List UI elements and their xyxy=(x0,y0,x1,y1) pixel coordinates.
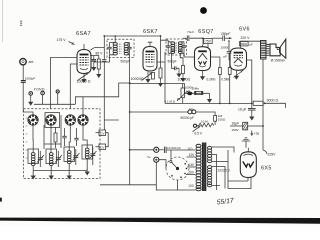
trimmer capacitor T4 xyxy=(90,147,97,165)
wafer switch S2 xyxy=(46,115,56,125)
svg-text:50000 pF: 50000 pF xyxy=(181,116,195,120)
wire HT bottom tap xyxy=(212,161,213,163)
svg-text:160: 160 xyxy=(188,171,194,175)
svg-text:Ø 150mm: Ø 150mm xyxy=(271,58,286,62)
tube 6SQ7 xyxy=(195,47,211,71)
svg-text:100Ω: 100Ω xyxy=(218,118,226,122)
diode plates 6X5 xyxy=(243,162,248,168)
capacitor AC 10000pF xyxy=(159,147,196,160)
svg-text:6SA7: 6SA7 xyxy=(76,31,91,37)
bottom page edge bar xyxy=(0,218,320,224)
wire AC bottom down to bus xyxy=(156,162,177,190)
svg-text:6V6: 6V6 xyxy=(239,26,250,32)
wire long vertical from B+ bus xyxy=(103,36,105,59)
resistor 3000 ohm filter xyxy=(251,101,286,108)
wire primary taps xyxy=(186,157,196,175)
secondary filament winding xyxy=(207,166,211,187)
oscillator coil L4 xyxy=(85,148,89,158)
capacitor twin circles xyxy=(188,110,215,116)
antenna terminal xyxy=(20,59,26,65)
capacitor grid 6SQ7 (HaF) xyxy=(183,35,204,44)
label 175V with arrow xyxy=(57,38,75,45)
capacitor inside box 2 xyxy=(74,138,78,140)
svg-text:pF: pF xyxy=(249,42,253,46)
svg-text:5000: 5000 xyxy=(240,42,247,46)
wire CV link vertical xyxy=(106,133,109,147)
wire IFT2 return vertical xyxy=(157,52,165,103)
trimmer capacitor T2 xyxy=(55,151,62,167)
AC input terminals xyxy=(147,147,159,162)
left edge mark xyxy=(0,198,2,202)
resistor 6SA7 anode-grid network xyxy=(90,56,99,60)
wire selector to bottom bus xyxy=(178,180,196,190)
svg-text:10000 Ω: 10000 Ω xyxy=(77,80,91,84)
capacitor near 6SA7 anode xyxy=(92,60,96,62)
capacitor inside box xyxy=(62,136,66,138)
core xyxy=(202,143,206,192)
shield can L3 xyxy=(64,147,75,162)
wire 6SQ7 plate up xyxy=(202,45,204,47)
resistor 6SQ7 diode load xyxy=(211,57,220,68)
svg-text:pF: pF xyxy=(224,55,228,59)
secondary HT winding xyxy=(207,146,211,162)
resistor 10M boxed xyxy=(195,91,203,94)
ground 6SQ7 cathode xyxy=(202,71,204,74)
trimmer capacitor T1 xyxy=(37,151,44,167)
wire AVC line xyxy=(130,83,185,85)
svg-text:6X5: 6X5 xyxy=(261,166,272,172)
svg-text:10000Ω: 10000Ω xyxy=(178,77,191,81)
svg-text:500pF: 500pF xyxy=(168,60,177,64)
dashed enclosure xyxy=(24,109,101,179)
ground in box L1 xyxy=(31,173,36,180)
voltage selector xyxy=(166,157,189,180)
svg-text:250pF: 250pF xyxy=(221,32,230,36)
trimmer capacitor T3 xyxy=(73,149,80,165)
capacitor 1000pF antenna xyxy=(21,81,26,83)
coil L3 xyxy=(67,151,71,164)
ground 6SK7 cathode xyxy=(147,71,149,76)
wire 6SA7 top right to bus vertical xyxy=(91,48,105,50)
ground above 6X5 xyxy=(242,138,250,148)
shield around S2 xyxy=(45,113,60,128)
capacitor filter 16uF first xyxy=(248,103,256,120)
svg-text:16 μF: 16 μF xyxy=(238,107,247,111)
resistor 6SK7 cathode xyxy=(152,73,155,80)
capacitor on vertical xyxy=(102,60,106,62)
svg-text:10 000 pF: 10 000 pF xyxy=(167,146,181,150)
IF transformer IFT2 xyxy=(161,39,187,82)
svg-text:10000Ω: 10000Ω xyxy=(131,77,144,81)
svg-text:6SQ7: 6SQ7 xyxy=(198,29,213,35)
page registration mark xyxy=(20,21,22,25)
svg-text:2x225 V: 2x225 V xyxy=(218,168,231,172)
coil L1 xyxy=(31,153,35,166)
svg-text:220 V: 220 V xyxy=(241,36,251,40)
AVC arrow 6SK7 xyxy=(142,73,153,81)
svg-text:6SK7: 6SK7 xyxy=(143,29,158,35)
capacitor blob xyxy=(184,84,186,94)
capacitor filter 16uF second (electrolytic) xyxy=(230,122,264,130)
tube 6V6 xyxy=(230,48,247,70)
svg-text:225V: 225V xyxy=(268,153,277,157)
svg-text:0.5Mn: 0.5Mn xyxy=(221,77,230,81)
svg-text:0.1 M Ω: 0.1 M Ω xyxy=(165,99,176,103)
FONO pickup terminal xyxy=(56,90,59,104)
wire 6X5 cathode top xyxy=(247,148,249,152)
volume potentiometer xyxy=(193,123,214,132)
svg-text:3000 Ω: 3000 Ω xyxy=(267,99,279,103)
svg-text:ant.: ant. xyxy=(29,60,35,64)
capacitor IFT2 secondary xyxy=(183,42,185,46)
tuning capacitor CV2 boxed xyxy=(96,144,106,150)
shield can L4 xyxy=(82,145,93,159)
wire IFT1 B+ xyxy=(114,36,116,43)
tube 6X5 xyxy=(240,152,256,178)
wire S1 from antenna xyxy=(23,109,33,115)
svg-text:125: 125 xyxy=(189,153,195,157)
core IFT1 xyxy=(120,44,122,55)
svg-text:+75: +75 xyxy=(254,132,260,136)
capacitor 250pF xyxy=(223,35,225,41)
diode plates 6SQ7 xyxy=(199,61,202,64)
svg-text:10000: 10000 xyxy=(221,46,230,50)
wire IFT1 secondary long vertical xyxy=(129,83,131,185)
wire HT lower tap xyxy=(213,161,228,163)
wire antenna down xyxy=(22,65,24,80)
shield can L1 xyxy=(28,149,39,164)
wire volume feed left xyxy=(130,111,188,113)
ground AVC cluster xyxy=(209,93,211,96)
svg-text:1000pF: 1000pF xyxy=(25,77,36,81)
tuning capacitor CV1 boxed xyxy=(96,130,106,136)
wire 6SQ7 diode to IFT2 xyxy=(184,53,195,57)
wire AC bottom to selector xyxy=(159,160,166,169)
resistor IFT2 bottom xyxy=(180,53,183,65)
marker +75 xyxy=(250,131,259,137)
svg-text:10 M: 10 M xyxy=(201,120,208,124)
svg-text:75V: 75V xyxy=(205,40,212,44)
wire IFT2 primary bottom xyxy=(171,53,173,66)
wafer switch S1 xyxy=(28,115,38,125)
B+ top bus wire xyxy=(104,35,160,37)
punch hole dot xyxy=(200,7,207,14)
svg-text:100: 100 xyxy=(188,184,194,188)
resistor 6V6 grid leak xyxy=(228,68,231,75)
wire bottom bus in box xyxy=(33,170,87,172)
AVC arrow 6SA7 xyxy=(78,73,90,81)
svg-text:16μF: 16μF xyxy=(232,121,240,125)
wire stub S4 up xyxy=(82,97,84,115)
svg-text:~: ~ xyxy=(147,155,151,162)
ground 6SA7 cathode xyxy=(83,74,85,77)
coil IFT2 primary xyxy=(171,42,175,54)
ground IFT2 b xyxy=(182,74,184,76)
wire bottom box to AC area xyxy=(100,184,156,186)
FONO jack right xyxy=(41,91,45,104)
wire HT to 6X5 plate left xyxy=(213,147,234,153)
wire HT top tap xyxy=(212,146,213,148)
capacitor IFT2 bottom xyxy=(175,66,176,70)
wire 6SA7 grid to band switch xyxy=(51,58,78,109)
output transformer xyxy=(261,41,270,60)
label 75V boxed xyxy=(204,39,212,48)
wire HT centre tap xyxy=(212,155,217,191)
coil IFT1 primary xyxy=(113,43,117,55)
ground in box L4 xyxy=(85,169,90,176)
capacitor coupling 10000pF xyxy=(227,40,232,67)
coil IFT2 secondary xyxy=(178,42,182,54)
svg-text:140: 140 xyxy=(189,163,195,167)
wire filament taps xyxy=(212,167,225,189)
wire staircase to volume xyxy=(75,83,129,104)
wire ground bus under FONO xyxy=(34,103,75,105)
tube 6SA7 xyxy=(77,44,91,74)
label 225V pointer xyxy=(263,150,276,157)
svg-text:85 V: 85 V xyxy=(96,52,104,56)
svg-text:10μ: 10μ xyxy=(189,107,194,111)
capacitor IFT1 primary xyxy=(109,43,111,48)
wire 6SA7 grid2 to band switch xyxy=(70,64,77,109)
coil L2 xyxy=(49,153,53,166)
wire IFT1 plate lead xyxy=(94,55,110,62)
ground IFT2 a xyxy=(178,68,180,70)
FONO jack left xyxy=(28,92,33,106)
left edge ticks xyxy=(26,118,28,158)
wire 6V6 plate to output transformer xyxy=(241,41,261,48)
svg-text:Ha F: Ha F xyxy=(188,30,195,34)
ground in box L3 xyxy=(67,173,72,180)
wire B+ bottom line xyxy=(165,102,252,104)
svg-text:175 V: 175 V xyxy=(57,38,67,42)
wire 6V6 screen down xyxy=(247,60,252,103)
capacitor IFT1 secondary xyxy=(129,43,131,48)
wire B+ into IFT2 xyxy=(161,40,169,42)
wafer switch S3 xyxy=(65,115,75,125)
wire extra inside box xyxy=(44,115,61,149)
tube 6SK7 xyxy=(143,42,157,71)
resistor 1M vertical xyxy=(214,116,217,122)
resistor 0.1M with arrow xyxy=(177,84,187,104)
capacitor IFT2 primary xyxy=(167,42,169,46)
AVC arrow 6V6 xyxy=(234,70,244,78)
resistor padder box xyxy=(54,133,57,142)
ground 6V6 cathode xyxy=(236,70,238,73)
wire 6X5 heater loop xyxy=(228,150,251,189)
page margin line xyxy=(2,0,4,42)
resistor 5000 boxed with pF xyxy=(240,42,253,47)
wire 6SQ7 plate to coupling xyxy=(212,37,222,39)
resistor 6SK7 screen xyxy=(160,36,162,68)
svg-text:10Mn: 10Mn xyxy=(192,87,200,91)
primary winding xyxy=(196,144,201,191)
power transformer xyxy=(196,143,212,192)
ground in box L2 xyxy=(49,173,54,180)
svg-text:0.2Mn: 0.2Mn xyxy=(207,78,216,82)
svg-text:- 6.5 V: - 6.5 V xyxy=(193,132,203,136)
speaker xyxy=(266,39,286,58)
core IFT2 xyxy=(175,43,176,53)
wire IFT1 secondary down xyxy=(129,55,131,84)
wire output transformer B+ down xyxy=(262,59,264,150)
shield can L2 xyxy=(46,149,57,164)
IF transformer IFT1 xyxy=(94,35,134,83)
svg-text:500pF: 500pF xyxy=(121,60,130,64)
wafer switch S4 xyxy=(78,115,88,125)
coil IFT1 secondary xyxy=(124,43,128,55)
svg-text:150V: 150V xyxy=(232,128,239,132)
